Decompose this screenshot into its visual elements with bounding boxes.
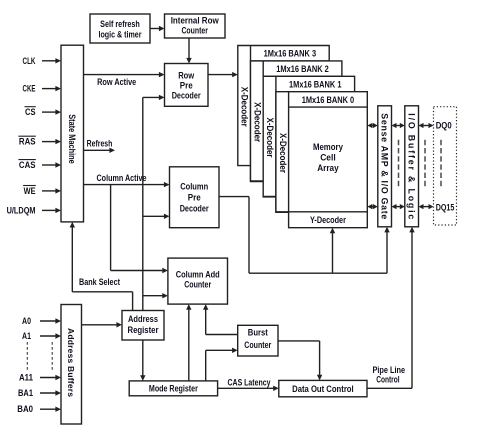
- svg-text:CAS Latency: CAS Latency: [228, 377, 271, 387]
- svg-text:State Machine: State Machine: [67, 114, 77, 164]
- svg-text:Self refresh: Self refresh: [100, 19, 140, 29]
- svg-text:CLK: CLK: [23, 56, 36, 66]
- svg-text:U/LDQM: U/LDQM: [7, 205, 36, 215]
- svg-text:Pre: Pre: [188, 193, 201, 203]
- svg-text:Decoder: Decoder: [172, 91, 201, 101]
- svg-text:Row Active: Row Active: [97, 77, 136, 87]
- svg-text:X-Decoder: X-Decoder: [240, 87, 250, 127]
- svg-text:1Mx16 BANK 3: 1Mx16 BANK 3: [264, 49, 317, 59]
- svg-text:Refresh: Refresh: [87, 139, 113, 149]
- svg-text:RAS: RAS: [19, 137, 36, 147]
- svg-text:CAS: CAS: [19, 160, 36, 170]
- svg-text:CS: CS: [25, 107, 36, 117]
- svg-text:Mode Register: Mode Register: [149, 384, 198, 394]
- svg-text:DQ0: DQ0: [436, 120, 452, 130]
- svg-text:A11: A11: [19, 373, 33, 383]
- svg-text:Sense AMP & I/O Gate: Sense AMP & I/O Gate: [380, 113, 390, 219]
- svg-text:Burst: Burst: [248, 328, 268, 338]
- svg-text:Cell: Cell: [320, 153, 336, 163]
- svg-text:Counter: Counter: [184, 280, 211, 290]
- svg-text:BA0: BA0: [17, 404, 33, 414]
- svg-text:1Mx16 BANK 0: 1Mx16 BANK 0: [302, 95, 355, 105]
- svg-text:A1: A1: [22, 331, 31, 341]
- svg-text:Control: Control: [376, 375, 399, 385]
- svg-text:X-Decoder: X-Decoder: [265, 118, 275, 158]
- svg-text:Column Add: Column Add: [176, 270, 220, 280]
- svg-text:Column Active: Column Active: [97, 173, 147, 183]
- svg-text:Y-Decoder: Y-Decoder: [310, 215, 346, 225]
- svg-text:Address Buffers: Address Buffers: [66, 328, 76, 397]
- svg-text:BA1: BA1: [18, 388, 33, 398]
- svg-text:X-Decoder: X-Decoder: [252, 102, 262, 142]
- svg-text:Memory: Memory: [313, 142, 343, 152]
- svg-text:Decoder: Decoder: [180, 204, 209, 214]
- svg-text:X-Decoder: X-Decoder: [278, 133, 288, 173]
- svg-text:DQ15: DQ15: [436, 203, 455, 213]
- svg-text:WE: WE: [24, 186, 36, 196]
- svg-text:Data Out Control: Data Out Control: [292, 384, 354, 394]
- svg-text:A0: A0: [22, 316, 31, 326]
- svg-text:Address: Address: [128, 314, 158, 324]
- svg-text:Array: Array: [317, 163, 339, 173]
- svg-text:Counter: Counter: [181, 26, 208, 36]
- svg-text:Row: Row: [178, 71, 195, 81]
- svg-text:1Mx16 BANK 1: 1Mx16 BANK 1: [289, 80, 342, 90]
- svg-text:Internal Row: Internal Row: [171, 16, 220, 26]
- svg-text:Register: Register: [128, 325, 159, 335]
- svg-text:1Mx16 BANK 2: 1Mx16 BANK 2: [276, 64, 329, 74]
- svg-text:Column: Column: [180, 182, 208, 192]
- svg-text:Bank Select: Bank Select: [79, 277, 120, 287]
- svg-text:logic & timer: logic & timer: [99, 30, 142, 40]
- svg-text:Pipe Line: Pipe Line: [372, 365, 405, 375]
- svg-text:CKE: CKE: [23, 84, 36, 94]
- svg-text:Pre: Pre: [180, 81, 193, 91]
- svg-text:Counter: Counter: [244, 340, 271, 350]
